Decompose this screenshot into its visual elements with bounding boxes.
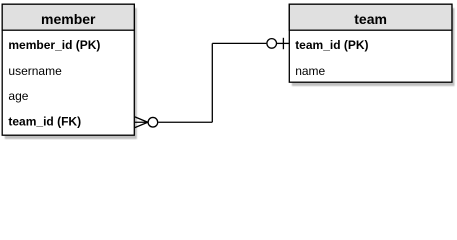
svg-text:team: team [354, 11, 387, 27]
entity team body [289, 4, 452, 82]
relationship wire: vertical segment [211, 43, 213, 122]
svg-text:username: username [8, 64, 62, 78]
one-bar at team end [282, 38, 284, 49]
crow's foot (many) at member [135, 117, 148, 128]
entity team shadow [289, 4, 452, 82]
relationship wire: corner to team [212, 42, 266, 44]
svg-text:age: age [8, 89, 28, 103]
optionality circle at team end [267, 39, 277, 49]
relationship wire: member to corner [158, 121, 212, 123]
entity member shadow [2, 4, 134, 135]
svg-text:name: name [295, 64, 325, 78]
entity team header [289, 4, 452, 30]
entity member body [2, 4, 134, 135]
optionality circle at member end [148, 117, 158, 127]
svg-text:member_id (PK): member_id (PK) [8, 38, 100, 52]
entity member header [2, 4, 134, 30]
svg-text:team_id (PK): team_id (PK) [295, 38, 368, 52]
wire: circle to team border [277, 42, 289, 44]
svg-text:team_id (FK): team_id (FK) [8, 115, 81, 129]
svg-text:member: member [41, 11, 96, 27]
